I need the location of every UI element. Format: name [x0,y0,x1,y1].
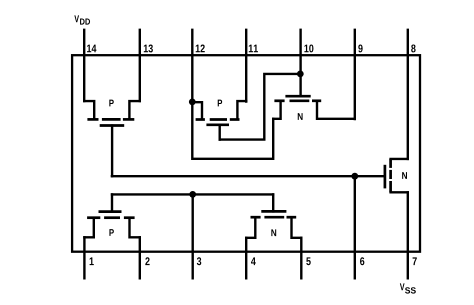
pin 8 lead [407,30,409,159]
pin number 10 [304,44,313,52]
junction dot pin 3 node [189,191,196,198]
junction dot pin 10 node [297,71,304,78]
transistor P2 lower-left [84,212,139,238]
wire pin 10 to P3 gate [220,74,301,140]
IC package outline [72,55,420,252]
label VDD subscript [80,19,90,25]
transistor N1 right sideways [385,159,408,192]
pin 9 lead [354,30,356,119]
P3 gate lead [218,125,220,140]
label P of transistor P1 [109,100,113,107]
N2 gate lead [272,194,274,211]
pin number 3 [197,257,201,265]
transistor N2 lower-middle [246,211,301,237]
pin number 14 [87,45,96,53]
pin 10 lead [299,30,301,74]
transistor P1 upper-left [84,101,140,125]
label N of transistor N2 [271,229,276,236]
pin 6 lead [354,176,356,278]
pin 13 lead [139,30,141,101]
pin number 7 [413,257,417,265]
label P of transistor P2 [109,229,113,236]
transistor N3 upper-right gate lead [299,74,301,96]
pin number 5 [306,257,310,265]
transistor P3 upper-middle [192,101,246,125]
pin number 2 [145,257,149,265]
pin number 13 [144,44,153,52]
P2 gate lead [111,194,113,211]
pin number 1 [90,257,94,265]
pin 2 lead [139,237,141,278]
pin 7 lead [407,192,409,278]
pin 1 lead [83,237,85,278]
junction dot pin 12 node [189,99,196,106]
pin 14 lead [83,30,85,101]
wire net pin 3 to gates of P2 and N2 [112,193,273,195]
pin 11 lead [245,30,247,102]
label N of right transistor N1 [402,172,407,179]
pin 12 lead [191,30,193,102]
pin 5 lead [300,238,302,278]
pin number 6 [360,257,364,265]
junction dot pin 6 node [351,173,358,180]
label P of transistor P3 [218,100,222,107]
label N of transistor N3 [298,113,303,120]
pin number 9 [358,44,362,52]
label VSS [400,283,405,290]
pin 4 lead [245,238,247,278]
pin number 8 [411,44,415,52]
transistor N3 upper-right [273,96,355,119]
pin number 12 [196,44,205,52]
label VSS subscript [405,287,416,293]
P1 gate lead [111,126,113,177]
wire pin 12 node to N3 left leg [192,102,273,159]
label VDD [74,15,79,22]
pin number 4 [251,257,256,265]
pin 3 lead [191,194,193,278]
wire net pin 6 to gates of P1 and right N1 [112,175,384,177]
pin number 11 [249,45,258,53]
